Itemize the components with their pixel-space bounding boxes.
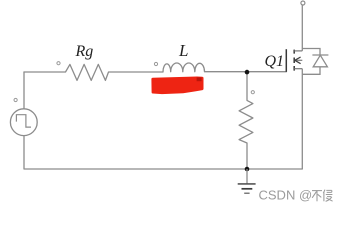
svg-text:Rg: Rg bbox=[75, 43, 94, 60]
svg-text:L: L bbox=[178, 41, 188, 60]
svg-text:CSDN @: CSDN @ bbox=[259, 188, 313, 203]
svg-text:Q1: Q1 bbox=[265, 53, 285, 70]
